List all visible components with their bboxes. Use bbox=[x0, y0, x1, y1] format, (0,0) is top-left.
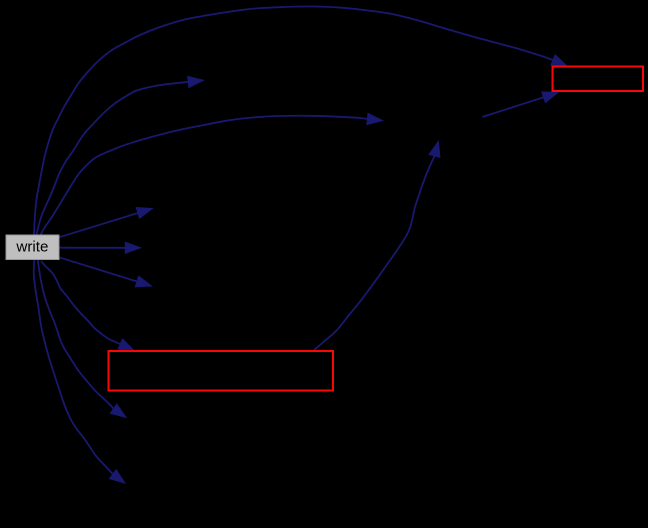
svg-text:write: write bbox=[15, 239, 48, 256]
